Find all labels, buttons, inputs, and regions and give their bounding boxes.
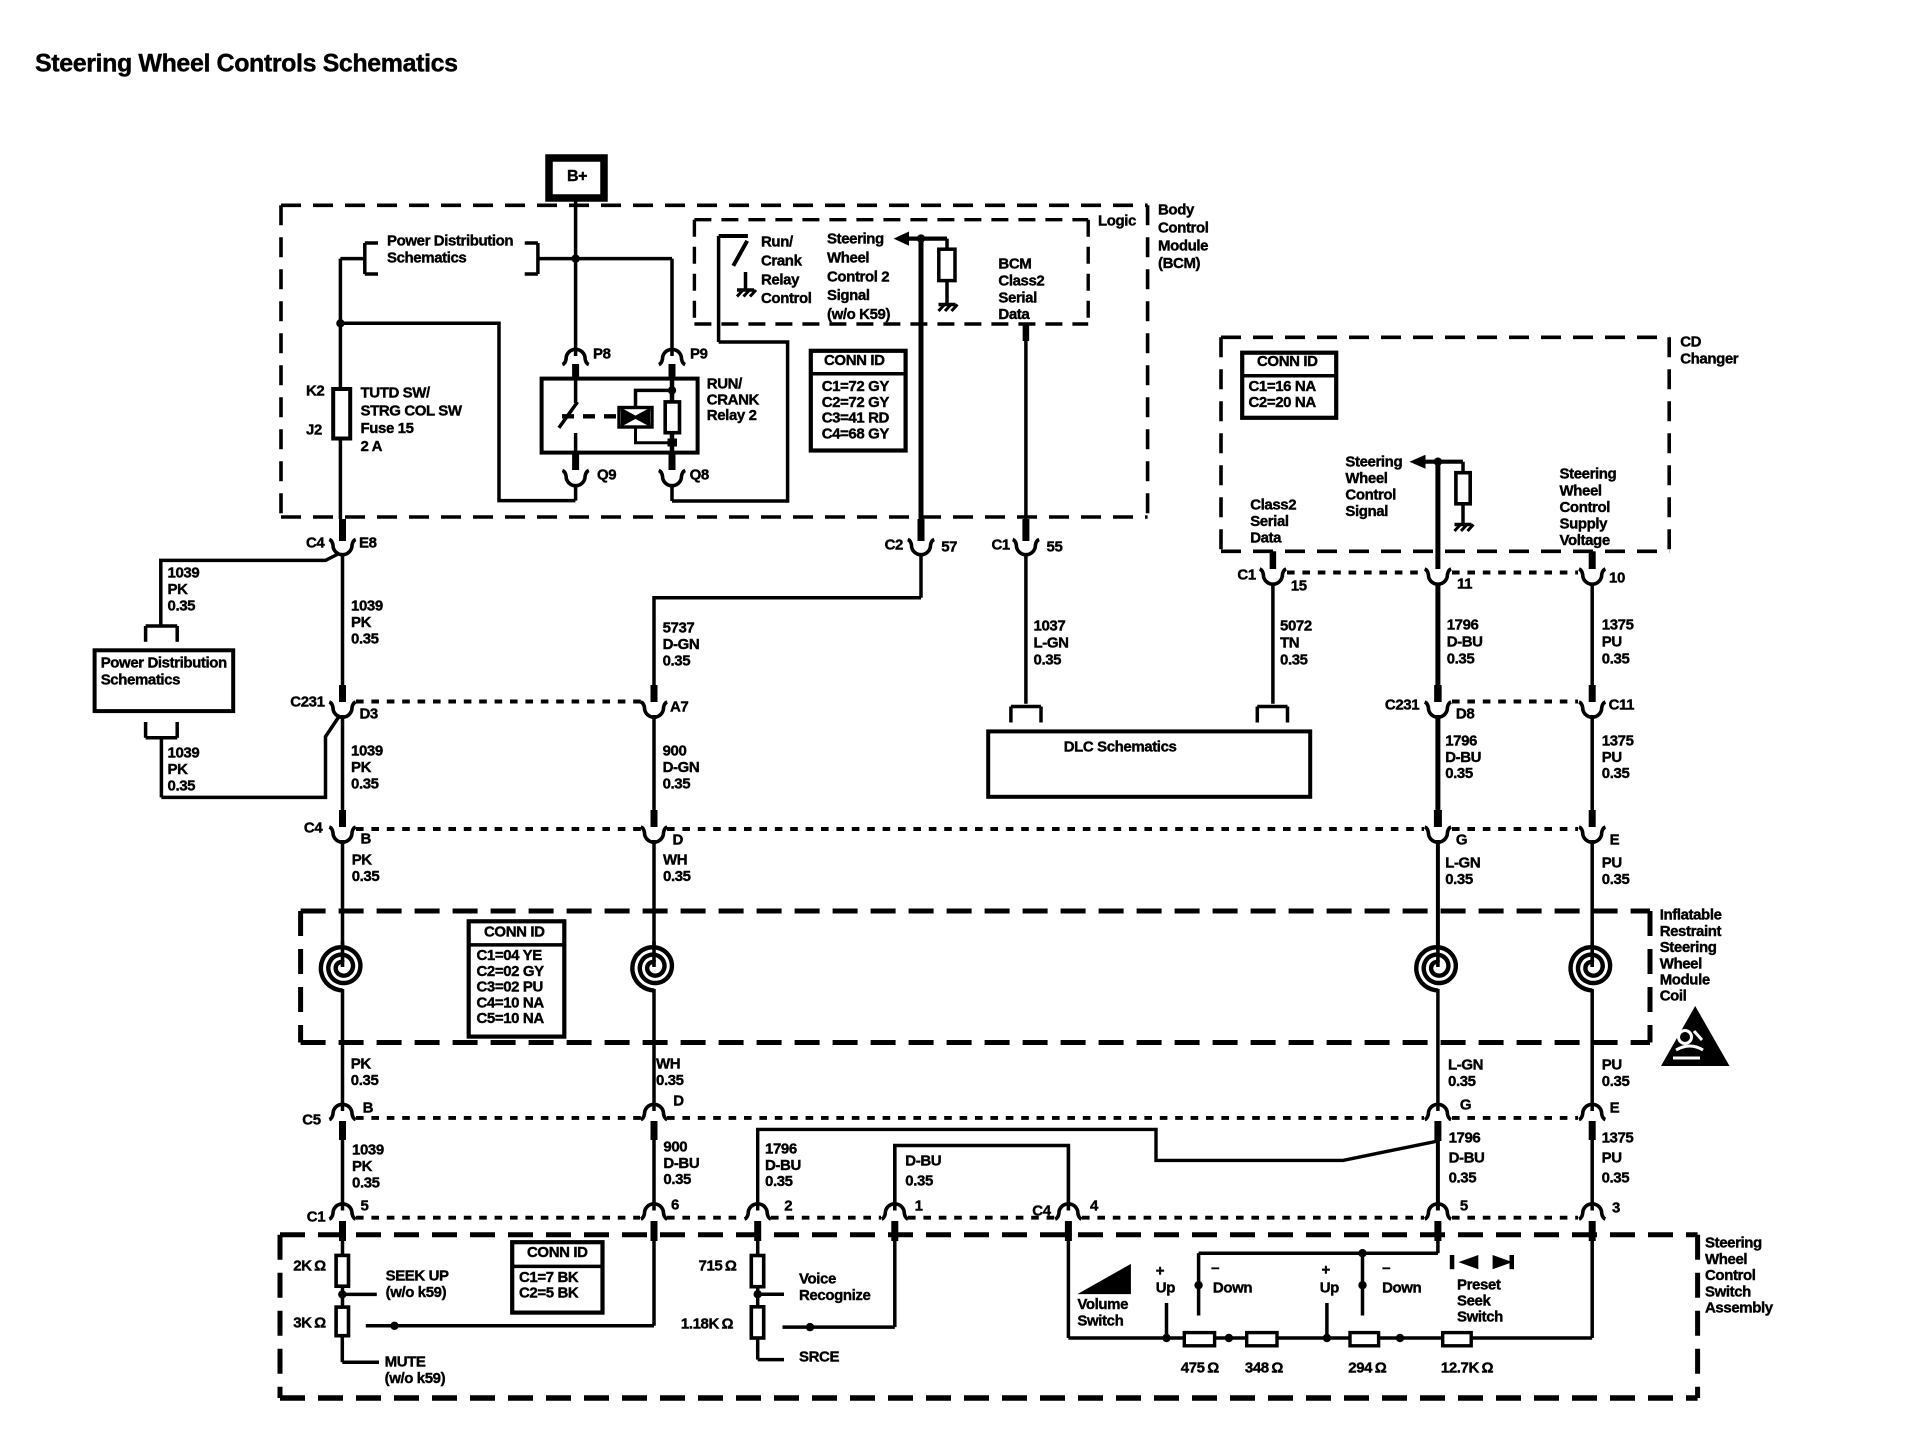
svg-text:Serial: Serial [998, 289, 1037, 306]
svg-text:BCM: BCM [998, 256, 1031, 273]
svg-text:0.35: 0.35 [656, 1072, 684, 1089]
svg-text:5072: 5072 [1280, 618, 1312, 635]
svg-text:0.35: 0.35 [1448, 1073, 1476, 1090]
svg-text:Seek: Seek [1457, 1293, 1491, 1310]
seek up switch tick [1325, 1303, 1329, 1338]
svg-text:Body: Body [1158, 202, 1195, 219]
svg-text:(w/o K59): (w/o K59) [827, 306, 890, 323]
svg-text:Signal: Signal [827, 287, 870, 304]
relay coil box with X [619, 408, 652, 428]
junction dot fuse branch [336, 319, 344, 327]
svg-text:D3: D3 [360, 706, 378, 723]
svg-text:Voltage: Voltage [1560, 532, 1610, 549]
Steering Wheel Control Switch Assembly dashed box [280, 1235, 1698, 1398]
svg-text:C1: C1 [992, 537, 1010, 554]
svg-text:Steering: Steering [1560, 466, 1617, 483]
svg-text:1039: 1039 [168, 745, 200, 762]
off-page bracket DLC (left) [1011, 707, 1041, 723]
svg-text:348 Ω: 348 Ω [1245, 1360, 1283, 1377]
svg-text:C4=68 GY: C4=68 GY [822, 425, 890, 442]
svg-text:Q9: Q9 [597, 467, 616, 484]
off-page bracket Power Distribution Schematics (top) [365, 243, 538, 274]
wire mute tap [342, 1336, 379, 1363]
svg-text:C3=41 RD: C3=41 RD [822, 410, 890, 427]
battery feed B+ box [549, 158, 604, 198]
connector 2 [745, 1204, 771, 1241]
svg-text:D-BU: D-BU [1449, 1150, 1485, 1167]
svg-text:Switch: Switch [1457, 1308, 1503, 1325]
wire E8 branch to power distribution [161, 554, 339, 627]
svg-text:(BCM): (BCM) [1158, 255, 1201, 272]
svg-text:CONN ID: CONN ID [484, 924, 545, 941]
Power Distribution Schematics box [95, 650, 234, 711]
wire D8 to G (thick) [1435, 715, 1440, 812]
seek switch blade wire (to pin 6) [366, 1241, 654, 1326]
svg-text:J2: J2 [306, 422, 322, 439]
svg-text:STRG COL SW: STRG COL SW [361, 402, 463, 419]
svg-text:C2=72 GY: C2=72 GY [822, 394, 890, 411]
svg-text:CRANK: CRANK [707, 391, 760, 408]
svg-text:15: 15 [1291, 578, 1307, 595]
connector E (C5 row) [1579, 1104, 1605, 1140]
volume switch triangle symbol [1077, 1264, 1131, 1294]
svg-text:PU: PU [1602, 1057, 1622, 1074]
svg-text:–: – [1382, 1260, 1390, 1277]
svg-text:2 A: 2 A [361, 438, 383, 455]
wire coil E down [1590, 989, 1594, 1111]
junction dot bus 2 [1396, 1334, 1404, 1342]
svg-text:0.35: 0.35 [351, 776, 379, 793]
svg-text:Up: Up [1156, 1280, 1175, 1297]
svg-text:–: – [1211, 1260, 1219, 1277]
DLC Schematics box [988, 731, 1310, 796]
srce switch blade wire (to pin 1) [783, 1241, 895, 1327]
svg-text:2K Ω: 2K Ω [293, 1258, 326, 1275]
dashed in-line connector row C231 [356, 700, 1578, 704]
connector G (top) [1425, 810, 1451, 842]
svg-text:1796: 1796 [1447, 617, 1479, 634]
resistor 3K [336, 1307, 348, 1336]
svg-text:PU: PU [1602, 749, 1622, 766]
svg-text:0.35: 0.35 [1445, 871, 1473, 888]
svg-text:(w/o k59): (w/o k59) [386, 1284, 447, 1301]
CONN ID table (BCM) [811, 351, 906, 451]
svg-text:Switch: Switch [1077, 1312, 1123, 1329]
cd changer pull-up resistor [1456, 462, 1470, 504]
svg-text:E8: E8 [359, 535, 377, 552]
svg-text:PK: PK [351, 759, 372, 776]
svg-text:0.35: 0.35 [1447, 650, 1475, 667]
svg-text:0.35: 0.35 [351, 631, 379, 648]
svg-text:0.35: 0.35 [663, 868, 691, 885]
svg-text:D-BU: D-BU [663, 1155, 699, 1172]
svg-text:SEEK UP: SEEK UP [386, 1268, 449, 1285]
svg-text:RUN/: RUN/ [707, 376, 743, 393]
svg-text:0.35: 0.35 [1602, 1170, 1630, 1187]
svg-text:Q8: Q8 [690, 467, 709, 484]
svg-text:Run/: Run/ [761, 234, 794, 251]
resistor 475 ohm [1184, 1333, 1214, 1346]
svg-text:Crank: Crank [761, 253, 803, 270]
junction dot B+ feed [571, 254, 579, 262]
connector D (top) [641, 810, 667, 842]
svg-text:Wheel: Wheel [827, 250, 869, 267]
clockspring coil G [1416, 947, 1456, 990]
relay switch contact [559, 379, 578, 453]
svg-text:1796: 1796 [765, 1141, 797, 1158]
svg-text:Switch: Switch [1705, 1283, 1751, 1300]
connector C4 E8 [329, 519, 355, 555]
svg-text:C2=02 GY: C2=02 GY [477, 963, 545, 980]
wire 11 to D8 (thick) [1435, 583, 1440, 701]
junction dot bus 1 [1225, 1334, 1233, 1342]
connector pin 11 [1425, 569, 1451, 584]
svg-text:2: 2 [784, 1198, 792, 1215]
svg-text:57: 57 [941, 539, 957, 556]
svg-text:PK: PK [351, 1056, 372, 1073]
svg-text:Wheel: Wheel [1345, 470, 1387, 487]
svg-text:Voice: Voice [799, 1271, 836, 1288]
connector 3 [1579, 1204, 1605, 1241]
svg-text:Recognize: Recognize [799, 1287, 870, 1304]
svg-text:PK: PK [351, 614, 372, 631]
svg-text:Steering: Steering [1705, 1235, 1762, 1252]
svg-text:0.35: 0.35 [1602, 650, 1630, 667]
left arrowhead steering wheel control signal [1409, 455, 1425, 469]
wire BCM class2 serial data stub [1023, 324, 1030, 341]
svg-text:1796: 1796 [1445, 733, 1477, 750]
wire B+ to P8 [574, 198, 578, 356]
relay parallel resistor [665, 379, 679, 453]
wire coil G down [1436, 989, 1440, 1111]
svg-text:1037: 1037 [1034, 618, 1066, 635]
svg-text:3: 3 [1612, 1200, 1620, 1217]
junction dot seek up tap [338, 1286, 377, 1307]
resistor 715 ohm [751, 1241, 763, 1287]
svg-text:P9: P9 [690, 346, 708, 363]
run/crank relay control switch symbol [719, 236, 748, 266]
svg-text:L-GN: L-GN [1445, 855, 1480, 872]
svg-text:Supply: Supply [1560, 516, 1609, 533]
wire run/crank control to Q8 [672, 236, 788, 501]
svg-text:Power Distribution: Power Distribution [101, 655, 227, 672]
svg-text:0.35: 0.35 [168, 778, 196, 795]
svg-text:D-GN: D-GN [663, 636, 700, 653]
wire B into coil module [341, 840, 345, 946]
svg-text:PU: PU [1602, 1150, 1622, 1167]
svg-text:C4: C4 [304, 820, 323, 837]
resistor 12.7K ohm [1443, 1333, 1472, 1346]
svg-text:WH: WH [656, 1056, 680, 1073]
svg-text:Volume: Volume [1077, 1296, 1128, 1313]
svg-text:Assembly: Assembly [1705, 1300, 1774, 1317]
wire G into coil module [1436, 840, 1440, 946]
svg-text:C1=7 BK: C1=7 BK [519, 1269, 579, 1286]
left arrowhead on steering wheel control 2 signal [894, 232, 909, 246]
seek down switch blade [1358, 1253, 1366, 1315]
junction dot srce blade [806, 1323, 814, 1331]
svg-text:1375: 1375 [1602, 1130, 1634, 1147]
svg-text:TUTD SW/: TUTD SW/ [361, 385, 432, 402]
Body Control Module (BCM) dashed box [281, 205, 1148, 517]
wire class2 serial data drop [1024, 341, 1028, 521]
svg-text:Up: Up [1320, 1280, 1339, 1297]
connector C11 [1579, 685, 1605, 717]
svg-text:Class2: Class2 [998, 273, 1044, 290]
off-page bracket out of power distribution box (bottom) [146, 722, 178, 738]
svg-text:10: 10 [1609, 570, 1625, 587]
svg-text:Control 2: Control 2 [827, 268, 889, 285]
connector 5 (preset) [1425, 1204, 1451, 1241]
wire E into coil module [1590, 840, 1594, 946]
preset seek feed wire from pin 5 [1199, 1241, 1438, 1253]
svg-text:CONN ID: CONN ID [1257, 353, 1318, 370]
wire C1-15 stub in cd box [1270, 551, 1277, 569]
svg-text:C5: C5 [302, 1112, 320, 1129]
svg-text:1.18K Ω: 1.18K Ω [681, 1316, 734, 1333]
connector C1 55 [1013, 519, 1039, 555]
wire power distribution to C231 D3 [161, 715, 340, 797]
connector C231 D8 [1425, 685, 1451, 717]
svg-text:Steering: Steering [827, 231, 884, 248]
svg-text:0.35: 0.35 [1449, 1170, 1477, 1187]
svg-text:C1=72 GY: C1=72 GY [822, 378, 890, 395]
svg-text:TN: TN [1280, 635, 1299, 652]
wire steering wheel control signal (thick) to pin 11 [1435, 462, 1440, 569]
svg-text:Schematics: Schematics [387, 250, 466, 267]
wire arrow to cd resistor [1425, 460, 1463, 464]
CONN ID table (coil module) [469, 921, 565, 1036]
volume down switch blade [1194, 1253, 1202, 1315]
connector G (C5 row) [1425, 1104, 1451, 1141]
svg-text:P8: P8 [593, 346, 611, 363]
ground symbol cd changer [1455, 504, 1474, 531]
junction dot voice tap [754, 1287, 785, 1307]
svg-text:PK: PK [352, 1158, 373, 1175]
svg-text:D-BU: D-BU [1445, 749, 1481, 766]
svg-text:+: + [1156, 1263, 1165, 1280]
wire D3 to B [341, 715, 345, 812]
svg-text:1039: 1039 [352, 1142, 384, 1159]
svg-text:+: + [1322, 1262, 1331, 1279]
wire fuse branch to Q9 return [340, 323, 575, 500]
svg-text:C1: C1 [307, 1209, 325, 1226]
wire power distribution feed [340, 259, 672, 325]
svg-text:0.35: 0.35 [352, 1175, 380, 1192]
connector E (top) [1579, 810, 1605, 842]
dotted in-line connector row C1 (switch assembly) [356, 1216, 1578, 1220]
svg-text:L-GN: L-GN [1034, 635, 1069, 652]
wire C2-57 to A7 jog [654, 553, 921, 692]
resistor 1.18K [751, 1307, 763, 1338]
ground symbol under logic resistor [939, 281, 958, 311]
svg-text:Down: Down [1382, 1280, 1421, 1297]
svg-text:Data: Data [1250, 530, 1282, 547]
junction dot preset feed [1358, 1249, 1366, 1257]
svg-text:Logic: Logic [1098, 213, 1136, 230]
svg-text:Power Distribution: Power Distribution [387, 233, 513, 250]
svg-text:PK: PK [168, 761, 189, 778]
svg-text:D: D [673, 832, 684, 849]
svg-text:5: 5 [1460, 1198, 1468, 1215]
svg-text:K2: K2 [306, 383, 324, 400]
svg-text:Module: Module [1158, 237, 1208, 254]
svg-text:900: 900 [663, 743, 687, 760]
wire P9 drop [670, 259, 674, 356]
junction dot relay coil top [668, 386, 676, 394]
svg-text:Wheel: Wheel [1660, 955, 1702, 972]
svg-text:Signal: Signal [1345, 503, 1388, 520]
resistor 2K [336, 1241, 348, 1286]
svg-text:CD: CD [1680, 334, 1701, 351]
svg-text:Steering: Steering [1345, 454, 1402, 471]
svg-text:55: 55 [1047, 539, 1063, 556]
svg-text:1039: 1039 [351, 743, 383, 760]
volume up switch tick [1165, 1303, 1169, 1338]
svg-text:0.35: 0.35 [663, 1171, 691, 1188]
svg-text:Control: Control [1345, 487, 1396, 504]
connector C1 5 [329, 1204, 355, 1241]
svg-text:C5=10 NA: C5=10 NA [477, 1010, 545, 1027]
svg-text:D-BU: D-BU [1447, 634, 1483, 651]
wire coil B down [341, 989, 345, 1111]
dashed in-line connector row (CD changer) [1287, 571, 1578, 575]
connector 1 [882, 1204, 908, 1241]
svg-text:Inflatable: Inflatable [1660, 907, 1722, 924]
relay dashed actuator link [562, 414, 618, 418]
RUN/CRANK Relay 2 box [542, 379, 698, 453]
svg-text:5: 5 [361, 1198, 369, 1215]
connector C5 B [329, 1104, 355, 1140]
svg-text:Changer: Changer [1680, 351, 1739, 368]
svg-text:0.35: 0.35 [1034, 651, 1062, 668]
svg-text:0.35: 0.35 [1445, 765, 1473, 782]
svg-text:1039: 1039 [351, 598, 383, 615]
Logic dashed box [694, 220, 1088, 324]
connector 6 [641, 1204, 667, 1241]
junction dot volume up [1162, 1334, 1170, 1342]
wire G jog to preset seek (1796 D-BU) [758, 1129, 1438, 1210]
svg-text:1: 1 [915, 1198, 923, 1215]
dotted in-line connector row C5 [356, 1116, 1578, 1120]
wire B to 5 [341, 1140, 345, 1211]
svg-text:6: 6 [671, 1197, 679, 1214]
svg-text:C11: C11 [1609, 697, 1635, 714]
svg-text:0.35: 0.35 [1602, 1073, 1630, 1090]
svg-text:4: 4 [1090, 1198, 1099, 1215]
connector Q9 [562, 453, 588, 486]
preset seek icon next [1493, 1255, 1514, 1269]
wire pin 4 to volume bus [1067, 1241, 1071, 1338]
svg-text:G: G [1460, 1097, 1471, 1114]
wire A7 to D [652, 715, 656, 812]
svg-text:1375: 1375 [1602, 733, 1634, 750]
svg-text:C2: C2 [885, 537, 903, 554]
svg-text:1796: 1796 [1449, 1130, 1481, 1147]
svg-text:Steering: Steering [1660, 939, 1717, 956]
connector A7 [641, 685, 667, 717]
svg-text:Schematics: Schematics [101, 672, 180, 689]
CD Changer dashed box [1221, 337, 1669, 551]
svg-text:C231: C231 [1385, 697, 1419, 714]
relay coil loop wires [636, 390, 673, 442]
CONN ID table (switch assembly) [512, 1242, 602, 1312]
svg-text:Relay: Relay [761, 271, 800, 288]
svg-text:C1=16 NA: C1=16 NA [1249, 378, 1317, 395]
svg-text:12.7K Ω: 12.7K Ω [1441, 1360, 1494, 1377]
svg-text:Preset: Preset [1457, 1277, 1501, 1294]
svg-text:3K Ω: 3K Ω [293, 1315, 326, 1332]
svg-text:DLC Schematics: DLC Schematics [1064, 739, 1177, 756]
svg-text:B: B [363, 1100, 374, 1117]
svg-text:D-GN: D-GN [663, 759, 700, 776]
off-page bracket DLC (right) [1257, 707, 1287, 723]
svg-text:D8: D8 [1456, 706, 1474, 723]
svg-text:C1: C1 [1237, 567, 1255, 584]
svg-text:PU: PU [1602, 855, 1622, 872]
junction dot seek up [1323, 1334, 1331, 1342]
svg-text:715 Ω: 715 Ω [699, 1258, 737, 1275]
wire Q9 below [574, 484, 578, 501]
svg-text:MUTE: MUTE [385, 1354, 426, 1371]
connector C231 D3 [329, 685, 355, 717]
svg-text:D-BU: D-BU [765, 1157, 801, 1174]
svg-text:D: D [673, 1093, 684, 1110]
svg-text:C231: C231 [290, 694, 324, 711]
svg-text:0.35: 0.35 [765, 1173, 793, 1190]
CONN ID table (CD changer) [1242, 353, 1336, 418]
svg-text:0.35: 0.35 [351, 1072, 379, 1089]
connector C1 15 [1260, 569, 1286, 584]
connector D (C5 row) [641, 1104, 667, 1140]
svg-text:C2=5 BK: C2=5 BK [519, 1285, 579, 1302]
wire E to 3 [1590, 1140, 1594, 1211]
svg-text:E: E [1610, 832, 1620, 849]
wire C1-55 to DLC [1024, 553, 1028, 704]
svg-text:Down: Down [1213, 1280, 1252, 1297]
preset seek icon prev [1450, 1255, 1479, 1269]
clockspring coil B [321, 947, 361, 990]
svg-text:294 Ω: 294 Ω [1348, 1360, 1386, 1377]
fuse K2/J2 TUTD SW/STRG COL SW Fuse 15 2A [333, 325, 350, 519]
svg-text:1039: 1039 [168, 565, 200, 582]
svg-text:11: 11 [1457, 576, 1472, 593]
connector C2 57 [908, 519, 934, 555]
svg-text:900: 900 [663, 1139, 687, 1156]
svg-text:C4=10 NA: C4=10 NA [477, 994, 545, 1011]
svg-text:Control: Control [1158, 220, 1209, 237]
wire E8 to D3 [341, 553, 345, 692]
svg-text:Data: Data [998, 306, 1030, 323]
svg-text:5737: 5737 [663, 620, 695, 637]
svg-text:475 Ω: 475 Ω [1181, 1360, 1219, 1377]
svg-text:Control: Control [1560, 499, 1611, 516]
svg-text:E: E [1610, 1100, 1620, 1117]
svg-text:0.35: 0.35 [168, 598, 196, 615]
svg-text:C2=20 NA: C2=20 NA [1249, 394, 1317, 411]
svg-text:Serial: Serial [1250, 513, 1289, 530]
svg-text:0.35: 0.35 [663, 776, 691, 793]
wire C11 to E [1590, 715, 1594, 812]
volume resistor bus [1068, 1336, 1592, 1340]
connector pin 10 [1579, 551, 1605, 584]
svg-text:CONN ID: CONN ID [527, 1244, 588, 1261]
svg-text:Fuse 15: Fuse 15 [361, 420, 414, 437]
svg-text:Control: Control [761, 290, 812, 307]
wire coil D down [652, 989, 656, 1111]
svg-text:C1=04 YE: C1=04 YE [477, 947, 543, 964]
wire steering wheel control 2 signal (thick) to C2-57 [919, 239, 924, 521]
